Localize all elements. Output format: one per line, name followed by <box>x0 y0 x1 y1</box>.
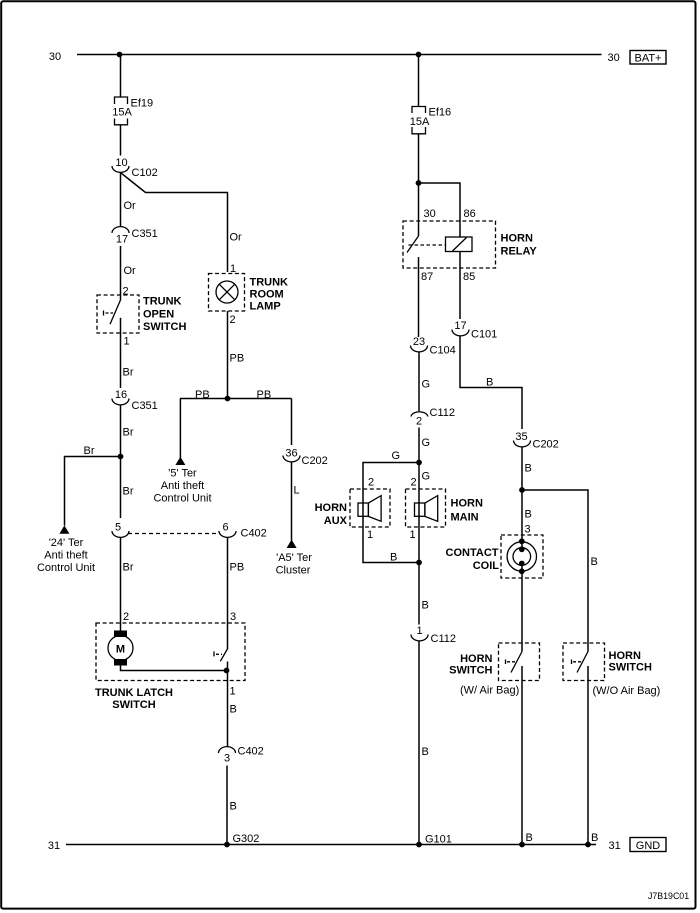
label HORN MAIN <box>451 498 483 524</box>
connector pin 10 C102 <box>112 157 158 179</box>
svg-text:17: 17 <box>116 233 128 245</box>
svg-text:Cluster: Cluster <box>276 565 311 577</box>
wire contact coil to horn switch <box>521 564 523 652</box>
svg-text:30: 30 <box>424 208 436 220</box>
svg-text:C102: C102 <box>132 167 158 179</box>
svg-text:Ef16: Ef16 <box>429 107 452 119</box>
wire C112 to G101 <box>418 641 420 845</box>
connector pin 17 C101 <box>452 320 497 341</box>
svg-text:17: 17 <box>454 320 466 332</box>
svg-text:C402: C402 <box>241 528 267 540</box>
svg-text:31: 31 <box>48 840 60 852</box>
svg-text:1: 1 <box>410 529 416 541</box>
off-page arrow '24' Ter <box>59 525 69 533</box>
trunk latch switch box <box>96 623 245 681</box>
svg-text:B: B <box>525 463 532 475</box>
wire relay 87 to C104 <box>418 257 420 337</box>
svg-text:B: B <box>422 600 429 612</box>
svg-text:15A: 15A <box>112 107 132 119</box>
svg-text:30: 30 <box>49 51 61 63</box>
svg-text:Control Unit: Control Unit <box>37 562 95 574</box>
wire fuse Ef19 to connector C102 <box>120 125 122 156</box>
connector pin 3 C402 <box>219 746 264 765</box>
wire C402 to ground G302 <box>226 766 228 845</box>
svg-text:RELAY: RELAY <box>501 245 538 257</box>
wire from bus 30 to fuse Ef19 <box>120 55 122 97</box>
connector link dashed C402 <box>128 533 220 535</box>
wire C351 pin16 down to connector pin 5 <box>120 405 122 518</box>
svg-text:G: G <box>422 379 431 391</box>
connector pin 1 C112 <box>411 625 456 645</box>
horn relay box <box>403 221 496 268</box>
horn main <box>406 489 446 527</box>
svg-text:2: 2 <box>123 611 129 623</box>
svg-text:TRUNK: TRUNK <box>143 296 182 308</box>
svg-text:L: L <box>294 485 300 497</box>
svg-text:G: G <box>392 450 401 462</box>
svg-text:3: 3 <box>224 753 230 765</box>
label TRUNK ROOM LAMP <box>250 277 289 313</box>
node BAT+ <box>630 51 666 65</box>
svg-text:1: 1 <box>367 529 373 541</box>
svg-text:G101: G101 <box>425 834 452 846</box>
wire branch to relay coil pin 86 <box>419 183 461 237</box>
svg-text:C351: C351 <box>132 228 158 240</box>
svg-text:G302: G302 <box>233 833 260 845</box>
junction horn switch 2 ground <box>585 842 591 848</box>
svg-text:B: B <box>591 556 598 568</box>
svg-text:G: G <box>422 471 431 483</box>
svg-text:85: 85 <box>463 271 475 283</box>
connector pin 23 C104 <box>411 336 456 356</box>
svg-text:Ef19: Ef19 <box>131 98 154 110</box>
svg-text:B: B <box>422 746 429 758</box>
svg-text:30: 30 <box>608 52 620 64</box>
junction PB <box>225 396 231 402</box>
svg-text:SWITCH: SWITCH <box>143 321 186 333</box>
svg-text:(W/O Air Bag): (W/O Air Bag) <box>593 685 661 697</box>
wire relay 85 to C101 <box>459 252 461 320</box>
wire C202 to contact coil <box>521 447 523 549</box>
svg-text:HORN: HORN <box>460 653 492 665</box>
wire lamp column down through pin 6 <box>227 537 229 649</box>
connector pin 6 C402 <box>219 521 267 539</box>
svg-text:6: 6 <box>222 521 228 533</box>
svg-text:MAIN: MAIN <box>451 512 479 524</box>
svg-text:C202: C202 <box>302 455 328 467</box>
connector pin 16 C351 <box>112 389 158 412</box>
svg-text:C104: C104 <box>430 345 456 357</box>
svg-text:HORN: HORN <box>501 233 533 245</box>
label HORN SWITCH (w/o air bag) <box>593 650 661 697</box>
label HORN SWITCH (w/ air bag) <box>449 653 519 697</box>
svg-text:M: M <box>116 644 125 656</box>
svg-text:3: 3 <box>525 524 531 536</box>
off-page arrow '5' Ter <box>175 457 185 465</box>
svg-text:ROOM: ROOM <box>250 289 284 301</box>
wire to connector 36 C202 <box>291 399 293 446</box>
trunk latch switch contact <box>214 649 228 662</box>
svg-text:2: 2 <box>368 477 374 489</box>
wire motor to junction <box>121 666 227 671</box>
svg-text:Or: Or <box>124 265 137 277</box>
svg-text:10: 10 <box>115 157 127 169</box>
svg-text:LAMP: LAMP <box>250 301 281 313</box>
connector pin 5 C402 <box>112 521 129 537</box>
relay coil <box>446 237 473 252</box>
label TRUNK LATCH SWITCH <box>95 687 173 711</box>
wire horn switch to bus 31 <box>521 666 523 845</box>
wire latch switch to connector 3 C402 <box>227 662 229 747</box>
svg-text:2: 2 <box>230 314 236 326</box>
wire C351 to trunk open switch <box>120 246 122 300</box>
wire bus 30 <box>77 54 602 56</box>
junction G101 <box>416 842 422 848</box>
svg-text:PB: PB <box>230 562 245 574</box>
junction (latch switch) <box>224 668 230 674</box>
wire branch to horn switch (w/o air bag) <box>522 490 588 652</box>
svg-text:SWITCH: SWITCH <box>609 662 652 674</box>
svg-text:B: B <box>486 377 493 389</box>
svg-text:Br: Br <box>84 445 95 457</box>
wire C101 to C202 <box>460 336 522 429</box>
junction G302 <box>224 842 230 848</box>
wire lamp to PB junction <box>227 311 229 399</box>
svg-text:C112: C112 <box>430 407 455 419</box>
wire branch to '24' Ter <box>65 457 121 526</box>
svg-text:36: 36 <box>285 447 297 459</box>
wire branch diagonal from C102 to trunk room lamp column <box>121 173 228 272</box>
relay switch blade <box>407 236 419 253</box>
connector pin 36 C202 <box>283 447 328 467</box>
wire horn switch 2 to bus 31 <box>587 666 589 845</box>
svg-text:16: 16 <box>115 389 127 401</box>
wire horn main to C112 pin1 <box>418 527 420 625</box>
svg-text:PB: PB <box>230 353 245 365</box>
svg-text:HORN: HORN <box>609 650 641 662</box>
trunk open switch <box>97 295 139 333</box>
svg-text:TRUNK: TRUNK <box>250 277 289 289</box>
svg-text:HORN: HORN <box>315 502 347 514</box>
svg-text:(W/ Air Bag): (W/ Air Bag) <box>460 684 519 696</box>
svg-text:AUX: AUX <box>324 515 348 527</box>
svg-text:GND: GND <box>636 840 661 852</box>
relay link dashed <box>409 244 446 246</box>
wire C102 down to C351 <box>120 172 122 226</box>
label HORN RELAY <box>501 233 538 258</box>
wire to '5' Ter <box>179 399 181 459</box>
svg-text:B: B <box>230 801 237 813</box>
junction horn ground <box>416 560 422 566</box>
junction on bus 30 right <box>416 52 422 58</box>
svg-text:B: B <box>230 704 237 716</box>
connector pin 17 C351 <box>112 227 158 246</box>
svg-text:OPEN: OPEN <box>143 309 174 321</box>
svg-text:15A: 15A <box>410 116 430 128</box>
svg-text:87: 87 <box>421 271 433 283</box>
svg-text:'24' Ter: '24' Ter <box>49 537 84 549</box>
wire C112 to horn junction <box>418 428 420 490</box>
wire trunk open switch to C351 pin16 <box>120 318 122 388</box>
horn switch (w/o air bag) <box>563 643 605 681</box>
node GND <box>630 838 666 852</box>
svg-text:Anti theft: Anti theft <box>161 480 204 492</box>
fuse Ef19 15A <box>112 97 153 125</box>
svg-text:CONTACT: CONTACT <box>446 547 499 559</box>
junction (relay feed) <box>416 180 422 186</box>
svg-text:2: 2 <box>411 477 417 489</box>
svg-text:C351: C351 <box>132 400 158 412</box>
svg-text:C402: C402 <box>238 746 264 758</box>
connector pin 35 C202 <box>514 431 559 451</box>
wire horn aux to junction <box>363 527 419 563</box>
svg-text:COIL: COIL <box>473 560 500 572</box>
label TRUNK OPEN SWITCH <box>143 296 186 334</box>
contact coil <box>501 535 543 578</box>
label CONTACT COIL <box>446 547 500 572</box>
svg-text:2: 2 <box>123 286 129 298</box>
svg-text:35: 35 <box>515 431 527 443</box>
svg-text:'5' Ter: '5' Ter <box>168 468 197 480</box>
svg-text:23: 23 <box>413 336 425 348</box>
svg-text:3: 3 <box>230 611 236 623</box>
svg-text:1: 1 <box>230 686 236 698</box>
wire pin5 to trunk latch switch motor <box>120 537 122 631</box>
label '24' Ter Anti theft Control Unit <box>37 537 95 574</box>
svg-text:1: 1 <box>124 336 130 348</box>
wire branch PB left/right <box>180 398 292 400</box>
svg-text:B: B <box>390 552 397 564</box>
junction on bus 30 left <box>117 52 123 58</box>
wire C104 to C112 <box>418 352 420 411</box>
svg-text:B: B <box>525 509 532 521</box>
svg-text:Br: Br <box>123 562 134 574</box>
svg-text:B: B <box>526 832 533 844</box>
svg-text:HORN: HORN <box>451 498 483 510</box>
svg-text:PB: PB <box>195 389 210 401</box>
svg-text:86: 86 <box>464 208 476 220</box>
svg-text:SWITCH: SWITCH <box>112 699 155 711</box>
wire fuse Ef16 to relay <box>418 134 420 236</box>
wire C202 to 'A5' Ter <box>291 462 293 541</box>
svg-text:2: 2 <box>416 416 422 428</box>
label 'A5' Ter Cluster <box>276 552 313 577</box>
svg-text:1: 1 <box>416 625 422 637</box>
svg-text:TRUNK LATCH: TRUNK LATCH <box>95 687 173 699</box>
svg-text:Or: Or <box>124 200 137 212</box>
junction horn switch 1 ground <box>519 842 525 848</box>
wire branch to horn aux <box>363 463 419 490</box>
svg-text:Br: Br <box>123 486 134 498</box>
off-page arrow 'A5' Ter <box>287 540 297 549</box>
svg-text:SWITCH: SWITCH <box>449 665 492 677</box>
svg-text:31: 31 <box>609 840 621 852</box>
svg-text:5: 5 <box>115 521 121 533</box>
label '5' Ter Anti theft Control Unit <box>153 468 211 505</box>
motor M <box>108 631 133 666</box>
horn aux <box>350 489 390 527</box>
svg-text:C112: C112 <box>431 633 456 645</box>
svg-text:Or: Or <box>230 232 243 244</box>
wire bus30 to fuse Ef16 <box>418 55 420 107</box>
junction horn switch branch <box>519 487 525 493</box>
junction horn feed <box>416 460 422 466</box>
fuse Ef16 15A <box>410 107 451 134</box>
horn switch (w/ air bag) <box>499 643 540 681</box>
svg-text:'A5' Ter: 'A5' Ter <box>276 552 312 564</box>
svg-text:G: G <box>422 437 431 449</box>
svg-text:Control Unit: Control Unit <box>153 493 211 505</box>
svg-text:Br: Br <box>123 427 134 439</box>
wire bus 31 <box>66 844 596 846</box>
junction to '24' Ter branch <box>118 454 124 460</box>
svg-text:Anti theft: Anti theft <box>44 550 87 562</box>
connector pin 2 C112 <box>411 407 455 428</box>
label HORN AUX <box>315 502 348 527</box>
svg-text:J7B19C01: J7B19C01 <box>648 891 689 901</box>
trunk room lamp <box>209 274 245 312</box>
svg-text:PB: PB <box>257 389 272 401</box>
svg-text:Br: Br <box>123 367 134 379</box>
svg-text:B: B <box>591 832 598 844</box>
svg-text:BAT+: BAT+ <box>634 52 661 64</box>
svg-text:C202: C202 <box>533 439 559 451</box>
svg-text:C101: C101 <box>471 329 497 341</box>
